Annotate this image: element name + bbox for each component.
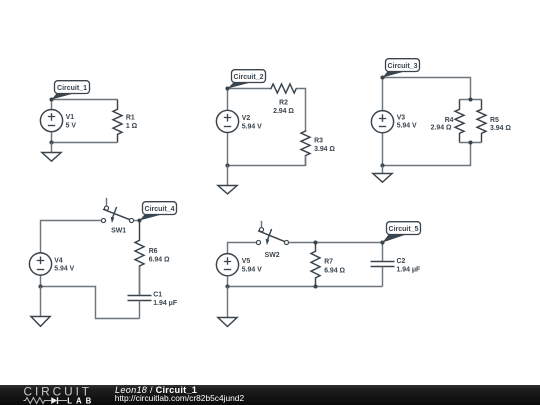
svg-text:R4: R4	[445, 117, 454, 124]
svg-text:SW2: SW2	[265, 252, 280, 259]
ground GND5	[218, 287, 237, 327]
resistor R3	[301, 131, 310, 165]
svg-text:V4: V4	[54, 257, 63, 264]
svg-text:1 Ω: 1 Ω	[126, 123, 138, 130]
node parallel bottom C3	[468, 140, 472, 144]
svg-text:3.94 Ω: 3.94 Ω	[314, 146, 335, 153]
svg-text:5.94 V: 5.94 V	[242, 266, 262, 273]
wire	[228, 156, 306, 166]
resistor R1	[113, 100, 122, 143]
node bottom C5	[225, 284, 229, 288]
wire	[228, 243, 257, 255]
resistor R6	[135, 221, 144, 296]
node bottom C1	[49, 140, 53, 144]
svg-text:Circuit_5: Circuit_5	[389, 226, 419, 233]
svg-text:6.94 Ω: 6.94 Ω	[324, 268, 345, 275]
node bottom C4	[38, 284, 42, 288]
svg-text:R3: R3	[314, 137, 323, 144]
footer bar	[0, 385, 540, 405]
svg-text:R6: R6	[149, 248, 158, 255]
footer line 1	[115, 385, 197, 395]
svg-text:2.94 Ω: 2.94 Ω	[273, 108, 294, 115]
voltage source V4	[29, 253, 51, 275]
wire	[297, 89, 306, 132]
wire	[460, 142, 482, 144]
wire	[228, 88, 272, 90]
wire	[382, 133, 384, 166]
node C2 top C5	[380, 240, 384, 244]
wire	[134, 220, 140, 222]
svg-text:V3: V3	[397, 114, 406, 121]
svg-text:Circuit_2: Circuit_2	[234, 74, 264, 81]
ground GND3	[373, 166, 392, 183]
svg-text:6.94 Ω: 6.94 Ω	[149, 257, 170, 264]
svg-text:SW1: SW1	[111, 227, 126, 234]
label Circuit_3	[383, 59, 420, 78]
voltage source V2	[216, 110, 238, 132]
wire	[40, 276, 42, 287]
svg-text:C2: C2	[397, 258, 406, 265]
svg-text:R1: R1	[126, 115, 135, 122]
svg-text:1.94 μF: 1.94 μF	[153, 300, 177, 307]
svg-text:Circuit_1: Circuit_1	[57, 85, 87, 92]
wire	[52, 99, 118, 101]
label Circuit_2	[228, 70, 266, 89]
switch SW1	[101, 198, 133, 235]
ground GND2	[218, 166, 237, 194]
node switch-R6 C4	[137, 218, 141, 222]
node R7 top C5	[313, 240, 317, 244]
wire	[52, 142, 118, 144]
logo resistor zigzag	[24, 398, 52, 404]
label Circuit_1	[52, 81, 90, 100]
node R7 bottom C5	[313, 284, 317, 288]
resistor R2	[271, 84, 297, 93]
svg-text:1.94 μF: 1.94 μF	[397, 267, 421, 274]
voltage source V5	[216, 254, 238, 276]
node top-left C3	[380, 75, 384, 79]
wire	[41, 221, 102, 254]
node top-left C2	[225, 86, 229, 90]
resistor R4	[455, 100, 464, 143]
svg-text:C1: C1	[153, 292, 162, 299]
wire	[41, 287, 140, 319]
wire	[383, 78, 471, 100]
label Circuit_4	[140, 202, 177, 221]
voltage source V3	[371, 111, 393, 133]
node parallel top C3	[468, 97, 472, 101]
capacitor C2	[371, 243, 395, 287]
switch SW2	[256, 221, 288, 259]
svg-text:5 V: 5 V	[66, 122, 77, 129]
wire	[383, 143, 471, 166]
node top-left C1	[49, 97, 53, 101]
ground GND4	[31, 287, 50, 327]
resistor R5	[477, 100, 486, 143]
svg-text:Circuit_3: Circuit_3	[388, 63, 418, 70]
svg-text:2.94 Ω: 2.94 Ω	[431, 125, 452, 132]
wire	[289, 242, 383, 244]
svg-text:LAB: LAB	[67, 396, 91, 405]
svg-text:R5: R5	[490, 117, 499, 124]
svg-text:R7: R7	[324, 259, 333, 266]
wire	[227, 277, 229, 287]
wire	[382, 78, 384, 112]
svg-text:V5: V5	[242, 258, 251, 265]
svg-text:R2: R2	[279, 100, 288, 107]
capacitor C1	[128, 267, 152, 319]
footer line 2	[115, 393, 244, 403]
svg-text:5.94 V: 5.94 V	[397, 123, 417, 130]
svg-text:Circuit_4: Circuit_4	[145, 206, 175, 213]
svg-text:3.94 Ω: 3.94 Ω	[490, 125, 511, 132]
svg-text:V1: V1	[66, 114, 75, 121]
svg-text:V2: V2	[242, 115, 251, 122]
node bottom C3	[380, 163, 384, 167]
wire	[227, 89, 229, 111]
wire	[51, 132, 53, 143]
svg-text:5.94 V: 5.94 V	[54, 266, 74, 273]
node bottom C2	[225, 163, 229, 167]
wire	[228, 286, 383, 288]
wire	[51, 100, 53, 111]
resistor R7	[311, 243, 320, 287]
svg-text:5.94 V: 5.94 V	[242, 123, 262, 130]
voltage source V1	[40, 110, 62, 132]
wire	[460, 99, 482, 101]
logo diode	[51, 397, 57, 404]
label Circuit_5	[383, 222, 421, 243]
ground GND1	[42, 143, 61, 162]
wire	[227, 133, 229, 166]
